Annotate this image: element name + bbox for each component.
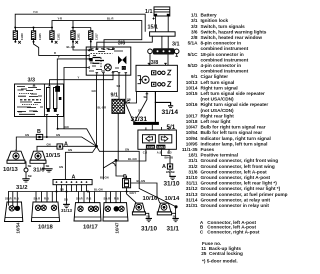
- svg-text:10/54: 10/54: [186, 130, 198, 135]
- svg-text:Connector, right A-post: Connector, right A-post: [207, 229, 260, 234]
- svg-text:5/1C: 5/1C: [188, 52, 199, 57]
- cigar lighter 9/1: [111, 92, 137, 161]
- wire 5/1 A3 to connector A right: [162, 149, 171, 164]
- wire Y-R feed: [52, 21, 142, 47]
- svg-text:SB:R: SB:R: [104, 197, 111, 201]
- wire 3/6 to GN row: [64, 68, 86, 129]
- svg-text:GN: GN: [25, 133, 29, 137]
- wire 3/6 down to junction (GN): [96, 75, 98, 146]
- svg-text:R: R: [54, 51, 56, 55]
- svg-text:31/13: 31/13: [61, 208, 73, 213]
- svg-text:GN: GN: [56, 133, 60, 137]
- connector arrow marks on 31/31 ground wire: [127, 100, 130, 103]
- svg-text:Switch, turn signals: Switch, turn signals: [201, 24, 246, 29]
- wire jump hook: [113, 163, 116, 166]
- svg-text:(not USA/CDN): (not USA/CDN): [201, 97, 235, 102]
- svg-text:Right turn signal: Right turn signal: [201, 85, 238, 90]
- svg-text:3/3: 3/3: [28, 78, 36, 84]
- svg-text:R:B: R:B: [14, 197, 19, 201]
- wire 3/6 down (BL-GR): [102, 75, 104, 179]
- svg-text:5/1A: 5/1A: [188, 41, 199, 46]
- svg-text:Left rear light: Left rear light: [201, 119, 231, 124]
- turn signal switch 3/3: [15, 78, 64, 117]
- svg-text:31/1: 31/1: [188, 158, 198, 163]
- wire 3/6 to ground bar 31/31: [125, 75, 134, 122]
- svg-text:*) 5-door model.: *) 5-door model.: [202, 259, 238, 264]
- svg-text:10/18: 10/18: [186, 119, 198, 124]
- wire GN junction to right lamps: [97, 146, 177, 207]
- svg-text:R:B: R:B: [44, 197, 49, 201]
- ground bar 31/31 in relay unit: [131, 116, 159, 125]
- connector A right A-post: [162, 164, 173, 170]
- wire junction2 diagonal to strip: [103, 160, 116, 168]
- svg-text:Ground connector, left rear li: Ground connector, left rear light *): [201, 181, 278, 186]
- svg-text:GN: GN: [68, 148, 72, 152]
- svg-text:31/13: 31/13: [186, 192, 198, 197]
- combined instrument 5/1: [138, 124, 177, 155]
- svg-text:10/16: 10/16: [143, 196, 158, 202]
- svg-text:11/17: 11/17: [94, 33, 98, 40]
- svg-text:11/29: 11/29: [20, 33, 24, 40]
- wire C to 10/16 GN-Y: [127, 188, 137, 203]
- svg-text:R:B: R:B: [87, 197, 92, 201]
- svg-text:31/1: 31/1: [167, 225, 180, 232]
- fuse 11/25 F2: [31, 28, 42, 43]
- svg-text:BL-GN: BL-GN: [100, 176, 109, 180]
- svg-text:Right turn signal side repeate: Right turn signal side repeater: [201, 102, 269, 107]
- wire 3/6 to 3/3 (T): [57, 59, 86, 84]
- svg-text:SB:R: SB:R: [34, 197, 41, 201]
- wire Y-O battery feed top: [15, 14, 145, 32]
- svg-text:3/1: 3/1: [172, 42, 180, 48]
- svg-text:11/25: 11/25: [38, 33, 42, 40]
- svg-text:31/6: 31/6: [33, 168, 45, 174]
- svg-text:SB: SB: [46, 164, 50, 168]
- svg-text:Ground connector in relay unit: Ground connector in relay unit: [201, 203, 270, 208]
- ground connector 31/14: [155, 92, 179, 122]
- fuse bus left: [15, 27, 52, 29]
- svg-text:Y-O: Y-O: [33, 10, 38, 14]
- wire 10/15 to A connector: [37, 146, 97, 151]
- svg-text:10/16: 10/16: [186, 102, 198, 107]
- fuse 11/31 F3: [50, 28, 61, 44]
- svg-text:10/14: 10/14: [186, 85, 198, 90]
- svg-text:10/54: 10/54: [16, 222, 21, 234]
- wire 5/1 B3 stub: [168, 149, 170, 154]
- svg-text:SB:R: SB:R: [5, 197, 12, 201]
- connector A strip left A-post: [53, 175, 92, 185]
- svg-text:1/1: 1/1: [191, 13, 198, 18]
- svg-text:Positive terminal: Positive terminal: [201, 153, 239, 158]
- wire F2 to 3/6 (R): [34, 42, 87, 56]
- svg-text:BL-GN: BL-GN: [128, 157, 137, 161]
- svg-text:10/95: 10/95: [186, 141, 198, 146]
- svg-text:BL-GR: BL-GR: [98, 106, 107, 110]
- svg-text:BN-SB: BN-SB: [165, 156, 174, 160]
- svg-text:A: A: [64, 141, 68, 147]
- left turn signal 10/13: [3, 149, 25, 172]
- svg-text:GN: GN: [125, 147, 129, 151]
- svg-text:10/15: 10/15: [186, 91, 198, 96]
- right side repeater 10/16: [132, 196, 158, 215]
- hazard switch 3/6: [86, 41, 131, 76]
- svg-text:combined instrument: combined instrument: [201, 69, 249, 74]
- svg-text:SB: SB: [173, 214, 177, 218]
- svg-text:10/94: 10/94: [186, 136, 198, 141]
- svg-text:R:B: R:B: [114, 197, 119, 201]
- svg-text:Ground connector, at relay uni: Ground connector, at relay unit: [201, 197, 271, 202]
- positive terminal 18/1: [97, 25, 175, 49]
- svg-text:18-pin connector in: 18-pin connector in: [201, 52, 244, 57]
- svg-text:2/8: 2/8: [191, 35, 198, 40]
- svg-text:31/10: 31/10: [141, 225, 157, 232]
- battery 1/1: [145, 7, 170, 32]
- svg-text:BL-R: BL-R: [107, 16, 113, 20]
- svg-text:SB: SB: [144, 95, 148, 99]
- svg-text:3/6: 3/6: [118, 41, 126, 47]
- ground chain 10/13 to 31/2: [16, 162, 32, 191]
- svg-text:BL-GR: BL-GR: [67, 45, 76, 49]
- svg-text:3/6: 3/6: [191, 29, 198, 34]
- svg-text:31/2: 31/2: [188, 164, 198, 169]
- svg-text:Ground connector, at fuel prim: Ground connector, at fuel primer pump: [201, 192, 288, 197]
- heated rear window switch 3/8: [136, 60, 177, 94]
- svg-text:SB: SB: [28, 164, 32, 168]
- svg-text:BL-GN: BL-GN: [94, 188, 103, 192]
- svg-text:GN: GN: [59, 165, 63, 169]
- svg-text:C:2: C:2: [143, 150, 148, 154]
- ground 31/13 at fuel primer pump: [61, 192, 73, 213]
- svg-text:B:3: B:3: [167, 150, 172, 154]
- svg-text:combined instrument: combined instrument: [201, 57, 249, 62]
- svg-text:Ground connector, right A-post: Ground connector, right A-post: [201, 175, 271, 180]
- wire C to 10/14 BL-GN: [131, 183, 160, 203]
- svg-text:11/51: 11/51: [76, 33, 80, 40]
- svg-text:10/15: 10/15: [46, 153, 61, 159]
- fuse 11/29 F1: [13, 28, 24, 44]
- ignition lock 3/1: [148, 42, 180, 66]
- wire F4 to 3/6 (BL-GR): [73, 42, 86, 50]
- left rear light 10/18: [31, 202, 59, 230]
- wire junction2 to connector C: [116, 160, 127, 178]
- svg-text:Fuses: Fuses: [201, 147, 215, 152]
- svg-text:11/31: 11/31: [57, 33, 61, 40]
- rear harness row: [8, 191, 139, 193]
- svg-text:25 Central locking: 25 Central locking: [201, 251, 243, 256]
- svg-text:(not USA/CDN): (not USA/CDN): [201, 108, 235, 113]
- svg-text:Cigar lighter: Cigar lighter: [201, 74, 229, 79]
- svg-text:A:3: A:3: [157, 150, 162, 154]
- svg-text:GN: GN: [65, 125, 69, 129]
- svg-text:31/12: 31/12: [186, 186, 198, 191]
- svg-text:9/1: 9/1: [191, 74, 198, 79]
- svg-text:31/11: 31/11: [186, 181, 198, 186]
- svg-text:10/13: 10/13: [186, 80, 198, 85]
- svg-text:10/14: 10/14: [165, 196, 180, 202]
- svg-text:GN: GN: [92, 89, 96, 93]
- svg-text:Left turn signal: Left turn signal: [201, 80, 235, 85]
- svg-text:Indicator lamp, right turn sig: Indicator lamp, right turn signal: [201, 136, 271, 141]
- svg-text:Switch, hazard warning lights: Switch, hazard warning lights: [201, 29, 267, 34]
- svg-text:Ground connector, right rear l: Ground connector, right rear light *): [201, 186, 281, 191]
- wire 3/3 to A connector row GN: [58, 117, 97, 147]
- svg-text:10/17: 10/17: [186, 113, 198, 118]
- wire 3/6 to cigar lighter (SB): [118, 75, 120, 99]
- svg-text:BL-GN: BL-GN: [137, 179, 146, 183]
- svg-text:10/47: 10/47: [115, 222, 120, 234]
- ground 31/6: [33, 163, 53, 173]
- svg-text:SB: SB: [64, 198, 68, 202]
- svg-text:Ground connector, left front w: Ground connector, left front wing: [201, 164, 275, 169]
- ground 31/10 right A-post: [164, 169, 180, 187]
- wire 3/3 to B connector row GN: [16, 137, 96, 151]
- svg-text:31/10: 31/10: [186, 175, 198, 180]
- svg-text:3/1: 3/1: [191, 18, 198, 23]
- connector B left A-post: [36, 129, 42, 139]
- svg-text:1/1: 1/1: [145, 9, 153, 15]
- svg-text:10/95: 10/95: [147, 145, 155, 149]
- fuse 11/17 F5: [89, 28, 99, 48]
- right turn signal 10/14: [157, 196, 180, 215]
- svg-text:31/14: 31/14: [186, 197, 198, 202]
- svg-text:C: C: [200, 229, 204, 234]
- svg-text:10/18: 10/18: [38, 224, 53, 230]
- svg-text:Left turn signal side repeater: Left turn signal side repeater: [201, 91, 266, 96]
- svg-text:Indicator lamp, left turn sign: Indicator lamp, left turn signal: [201, 141, 268, 146]
- svg-text:C: C: [123, 174, 127, 180]
- svg-text:9/1: 9/1: [111, 93, 119, 99]
- svg-text:3/3: 3/3: [191, 24, 198, 29]
- svg-text:SB: SB: [146, 214, 150, 218]
- svg-text:Y-R: Y-R: [58, 16, 63, 20]
- svg-text:31/31: 31/31: [186, 203, 198, 208]
- svg-text:Y: Y: [78, 76, 80, 80]
- svg-text:31/6: 31/6: [188, 169, 198, 174]
- connector C right A-post: [100, 174, 131, 188]
- svg-text:Switch, heated rear window: Switch, heated rear window: [201, 35, 263, 40]
- connector A left A-post: [57, 141, 68, 149]
- svg-text:SB: SB: [28, 174, 32, 178]
- strip A outputs: [57, 185, 87, 192]
- svg-text:15/1: 15/1: [148, 25, 159, 31]
- ground wire 3/8 to 31/31 (SB): [135, 94, 147, 122]
- svg-text:8-pin connector in: 8-pin connector in: [201, 41, 242, 46]
- svg-text:SB: SB: [117, 84, 121, 88]
- bulb left turn signal rear 10/54: [5, 202, 23, 234]
- svg-text:18/1: 18/1: [188, 153, 198, 158]
- svg-text:10/13: 10/13: [3, 167, 18, 173]
- svg-text:10/17: 10/17: [83, 224, 98, 230]
- svg-text:combined instrument: combined instrument: [201, 46, 249, 51]
- svg-text:Bulb for left turn signal rear: Bulb for left turn signal rear: [201, 130, 263, 135]
- svg-text:SB: SB: [127, 98, 131, 102]
- svg-text:Ground connector, right front: Ground connector, right front wing: [201, 158, 279, 163]
- ground 31/10 at 10/16: [141, 213, 157, 232]
- wire 5/1 pin C2 BL-GN to junction: [116, 149, 146, 161]
- svg-text:SB:R: SB:R: [76, 197, 83, 201]
- svg-text:Right rear light: Right rear light: [201, 113, 235, 118]
- svg-text:31/10: 31/10: [164, 180, 180, 187]
- svg-text:31/14: 31/14: [162, 109, 179, 116]
- svg-text:Ground connector, left A-post: Ground connector, left A-post: [201, 169, 268, 174]
- svg-text:BN-SB: BN-SB: [166, 170, 175, 174]
- left side repeater 10/15: [30, 151, 61, 163]
- node at 10/14 right: [174, 205, 177, 208]
- svg-text:Battery: Battery: [201, 13, 218, 18]
- svg-text:11/1-35: 11/1-35: [182, 147, 198, 152]
- ground 31/1 right front wing: [167, 207, 180, 233]
- wire GN junction to strip left: [65, 146, 96, 179]
- bulb right turn signal rear 10/47: [103, 203, 128, 234]
- svg-text:10/47: 10/47: [186, 125, 198, 130]
- svg-text:31/2: 31/2: [16, 185, 28, 191]
- svg-text:4-pin connector in: 4-pin connector in: [201, 63, 242, 68]
- fuse 11/51 F4: [71, 28, 81, 44]
- svg-text:5/1D: 5/1D: [188, 63, 199, 68]
- right rear light 10/17: [74, 203, 101, 231]
- wires into rear lamp boxes: [9, 192, 18, 203]
- svg-text:GN: GN: [47, 142, 51, 146]
- fuse bus right: [72, 21, 91, 28]
- wire 3/6 to 3/3 (Y): [50, 75, 114, 84]
- svg-text:A: A: [162, 164, 166, 170]
- svg-text:Bulb for right turn signal rea: Bulb for right turn signal rear: [201, 125, 266, 130]
- svg-text:10/94: 10/94: [157, 145, 165, 149]
- svg-text:Ignition lock: Ignition lock: [201, 18, 229, 23]
- node junction at relay GN wires: [95, 145, 98, 148]
